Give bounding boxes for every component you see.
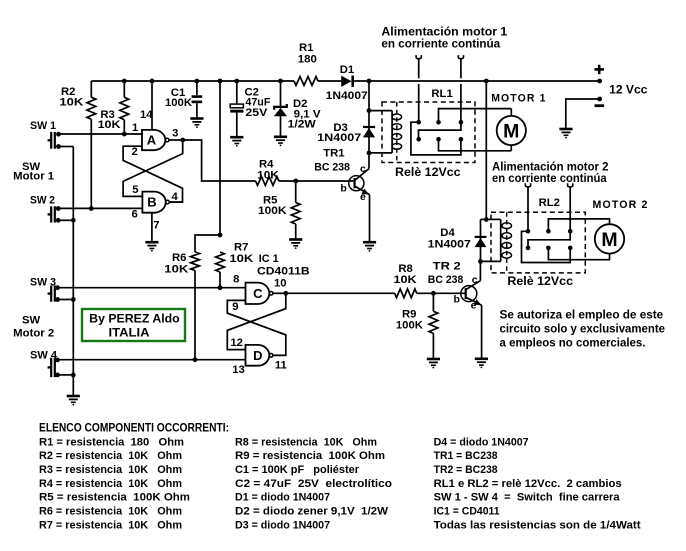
resistor R2 [59, 81, 95, 211]
label: MOTOR 2 [593, 199, 649, 211]
wire: pin 10 to R8 [286, 292, 395, 294]
svg-text:BC 238: BC 238 [428, 274, 464, 286]
resistor R3 [98, 79, 129, 137]
svg-text:RL1: RL1 [431, 88, 452, 100]
svg-text:R1: R1 [299, 42, 313, 54]
ground (pin 7) [145, 242, 158, 252]
svg-text:1N4007: 1N4007 [326, 90, 368, 102]
svg-text:R4 = resistencia 10K Ohm: R4 = resistencia 10K Ohm [39, 478, 182, 490]
svg-text:10K: 10K [394, 274, 418, 286]
svg-text:A: A [147, 132, 157, 147]
svg-text:SW 2: SW 2 [30, 195, 55, 207]
svg-text:100K: 100K [258, 205, 287, 217]
svg-text:1N4007: 1N4007 [428, 239, 471, 251]
wire: SW4 lower contact to common [58, 374, 74, 376]
pin label 2 [132, 146, 138, 158]
svg-text:en corriente continúa: en corriente continúa [381, 37, 500, 50]
resistor R9 [396, 293, 438, 358]
svg-text:11: 11 [275, 359, 287, 371]
svg-text:circuito solo y exclusivamente: circuito solo y exclusivamente [500, 322, 666, 336]
svg-text:R6: R6 [172, 252, 186, 264]
svg-text:SW 1 - SW 4 = Switch fine c: SW 1 - SW 4 = Switch fine carrera [434, 492, 621, 504]
svg-text:D4 = diodo 1N4007: D4 = diodo 1N4007 [434, 436, 529, 448]
wire: TR1 emitter to ground [369, 195, 371, 242]
svg-text:10K: 10K [164, 264, 189, 276]
svg-text:BC 238: BC 238 [314, 162, 350, 174]
label: SW Motor 2 [13, 314, 54, 339]
capacitor C2 electrolytic [230, 79, 270, 137]
motor M1 [497, 109, 526, 151]
NAND gate B (IC1b) [142, 192, 182, 213]
NAND gate C (IC1c) [246, 283, 289, 304]
svg-text:IC1 = CD4011: IC1 = CD4011 [434, 506, 500, 518]
svg-text:R5 = resistencia 100K Ohm: R5 = resistencia 100K Ohm [39, 492, 190, 504]
svg-text:9: 9 [232, 301, 238, 313]
resistor R4 [256, 159, 296, 186]
pin label 6 [132, 209, 138, 221]
svg-text:10K: 10K [229, 253, 254, 265]
svg-text:b: b [340, 182, 346, 194]
label: IC 1 CD4011B [257, 253, 310, 278]
ground (D2) [274, 137, 287, 147]
relay RL1 [369, 88, 511, 163]
resistor R5 [258, 181, 300, 239]
resistor R7 [216, 242, 255, 291]
zener diode D2 [274, 79, 321, 136]
wire: gate B pin 7 to ground [151, 213, 153, 242]
wire: rail to relay RL2 feed [484, 79, 489, 220]
svg-text:R2 = resistencia 10K Ohm: R2 = resistencia 10K Ohm [39, 450, 182, 462]
node: TR1 base junction [293, 179, 353, 184]
svg-text:MOTOR 1: MOTOR 1 [491, 93, 546, 105]
svg-text:25V: 25V [245, 107, 267, 119]
note: author box By PEREZ Aldo ITALIA [82, 309, 185, 341]
svg-text:12 Vcc: 12 Vcc [609, 85, 648, 97]
svg-text:Relè 12Vcc: Relè 12Vcc [507, 274, 573, 288]
svg-text:RL1 e RL2 = relè 12Vcc. 2 cam: RL1 e RL2 = relè 12Vcc. 2 cambios [434, 478, 622, 490]
wire: pin 3 to pin 5 feedback [123, 140, 183, 196]
node: +12Vcc terminal [594, 65, 648, 97]
note: Alimentación motor 2 [492, 161, 609, 186]
svg-text:CD4011B: CD4011B [257, 266, 310, 278]
wire: pin 3 to R4 [183, 140, 256, 181]
pin label 7 [153, 219, 159, 231]
node: - terminal [566, 97, 604, 128]
wire: SW2 lower contact to common [58, 219, 73, 221]
pin label 8 [233, 273, 239, 285]
svg-text:1/2W: 1/2W [288, 118, 316, 130]
svg-text:5: 5 [132, 184, 138, 196]
terminal: motor 2 supply a [525, 183, 530, 231]
svg-text:Se autoriza el empleo de este: Se autoriza el empleo de este [500, 307, 664, 321]
svg-text:en corriente continúa: en corriente continúa [492, 172, 607, 185]
motor M2 [595, 224, 624, 253]
wire: +12V power rail [91, 80, 599, 82]
svg-text:R6 = resistencia 10K Ohm: R6 = resistencia 10K Ohm [39, 506, 182, 518]
svg-text:R7: R7 [234, 242, 248, 254]
svg-text:D2 = diodo zener 9,1V 1/2W: D2 = diodo zener 9,1V 1/2W [235, 506, 389, 518]
svg-text:TR2 = BC238: TR2 = BC238 [434, 464, 498, 476]
svg-text:2: 2 [132, 146, 138, 158]
svg-text:B: B [147, 195, 156, 210]
wire: SW2 to gate B pin 6 [58, 207, 142, 209]
node: TR2 base junction [431, 291, 466, 296]
svg-text:D1: D1 [340, 64, 354, 76]
svg-text:3: 3 [172, 127, 178, 139]
ground (supply) [559, 129, 572, 139]
svg-text:M: M [503, 120, 519, 142]
svg-text:TR1 = BC238: TR1 = BC238 [434, 450, 498, 462]
wire: rail down to R7 [218, 79, 223, 235]
svg-text:100K: 100K [396, 319, 424, 331]
svg-text:C1 = 100K pF poliéster: C1 = 100K pF poliéster [235, 464, 360, 476]
terminal: motor 2 supply b [568, 183, 573, 231]
svg-text:R3 = resistencia 10K Ohm: R3 = resistencia 10K Ohm [39, 464, 182, 476]
svg-text:6: 6 [132, 209, 138, 221]
svg-text:D4: D4 [440, 227, 455, 239]
svg-text:10K: 10K [98, 119, 122, 131]
wire: SW3 to gate C pin 8 [58, 285, 246, 290]
svg-text:10: 10 [274, 277, 287, 289]
svg-text:R8 = resistencia 10K Ohm: R8 = resistencia 10K Ohm [235, 436, 377, 448]
switch SW4 [30, 349, 60, 377]
pin label 4 [172, 191, 179, 203]
svg-text:ITALIA: ITALIA [109, 326, 150, 340]
diode D3 [317, 79, 375, 169]
svg-text:SW 4: SW 4 [30, 349, 58, 361]
svg-text:C: C [253, 286, 263, 301]
pin label 5 [132, 184, 138, 196]
svg-text:e: e [471, 300, 477, 312]
svg-text:D1 = diodo 1N4007: D1 = diodo 1N4007 [235, 492, 330, 504]
wire: switch common to ground [71, 147, 76, 396]
resistor R6 [164, 233, 222, 363]
label: SW Motor 1 [13, 161, 54, 183]
wire: SW4 to gate D pin 13 [58, 359, 246, 361]
svg-text:13: 13 [232, 364, 245, 376]
pin label 10 [274, 277, 287, 289]
pin label 14 [140, 109, 153, 121]
NAND gate D (IC1d) [246, 345, 286, 366]
note: Alimentación motor 1 [381, 25, 507, 50]
svg-text:14: 14 [140, 109, 153, 121]
label: MOTOR 1 [491, 93, 546, 105]
svg-text:R9 = resistencia 100K Ohm: R9 = resistencia 100K Ohm [235, 450, 385, 462]
diode D4 [428, 217, 501, 264]
pin label 12 [230, 337, 243, 349]
svg-text:R7 = resistencia 10K Ohm: R7 = resistencia 10K Ohm [39, 519, 182, 531]
note: component list [39, 423, 641, 532]
svg-text:1: 1 [132, 122, 138, 134]
relay RL2 [486, 197, 609, 273]
svg-text:MOTOR 2: MOTOR 2 [593, 199, 649, 211]
svg-text:10K: 10K [59, 97, 84, 109]
terminal: motor 1 supply b [458, 55, 463, 122]
switch SW2 [30, 195, 61, 223]
transistor TR2 BC238 [428, 261, 482, 312]
ground (C1) [190, 119, 203, 129]
svg-text:SW: SW [22, 314, 41, 326]
svg-text:RL2: RL2 [539, 197, 560, 209]
capacitor C1 [165, 79, 202, 119]
ground (R9) [427, 359, 440, 369]
pin label 9 [232, 301, 238, 313]
wire: SW1 lower contact to common [59, 146, 74, 148]
ground (R5) [289, 240, 302, 250]
svg-text:e: e [360, 191, 366, 203]
svg-text:Todas las resistencias son de: Todas las resistencias son de 1/4Watt [434, 519, 641, 531]
wire: SW1 to gate A pin 1 [59, 133, 143, 135]
resistor R1 [294, 42, 318, 85]
svg-text:IC 1: IC 1 [259, 253, 279, 265]
pin label 11 [275, 359, 287, 371]
svg-text:c: c [360, 163, 366, 175]
pin label 3 [172, 127, 178, 139]
svg-text:10K: 10K [257, 169, 279, 181]
svg-text:8: 8 [233, 273, 239, 285]
pin label 1 [132, 122, 138, 134]
svg-text:180: 180 [298, 54, 317, 66]
terminal: motor 1 supply a [416, 55, 421, 122]
svg-text:a empleos no comerciales.: a empleos no comerciales. [500, 335, 646, 349]
svg-text:SW 1: SW 1 [30, 120, 56, 132]
switch SW1 [30, 120, 61, 149]
svg-text:By PEREZ Aldo: By PEREZ Aldo [89, 311, 180, 325]
ground (C2) [230, 137, 243, 147]
diode D1 [326, 64, 368, 102]
svg-text:TR1: TR1 [323, 148, 344, 160]
svg-text:D: D [253, 348, 262, 363]
svg-text:Motor 2: Motor 2 [13, 327, 54, 339]
svg-text:12: 12 [230, 337, 243, 349]
svg-text:SW 3: SW 3 [30, 277, 56, 289]
svg-text:c: c [472, 274, 478, 286]
svg-text:D3 = diodo 1N4007: D3 = diodo 1N4007 [235, 519, 330, 531]
svg-text:Relè 12Vcc: Relè 12Vcc [395, 165, 461, 179]
note: se autoriza [500, 307, 666, 349]
svg-text:100K: 100K [165, 97, 193, 109]
transistor TR1 BC238 [314, 148, 369, 203]
ground (switch common) [67, 396, 80, 406]
ground (TR2) [475, 359, 488, 369]
wire: pin 10 to pin 12 feedback [227, 293, 285, 349]
label: Relè 12Vcc (RL2) [507, 274, 573, 288]
ground (TR1) [363, 242, 376, 252]
svg-text:R1 = resistencia 180 Ohm: R1 = resistencia 180 Ohm [39, 436, 184, 448]
wire: SW3 lower contact to common [58, 299, 74, 301]
wire: TR2 emitter to ground [481, 305, 483, 358]
svg-text:M: M [601, 229, 617, 251]
wire: rail to gate A pin 14 [150, 79, 155, 130]
resistor R8 [394, 263, 434, 298]
svg-text:ELENCO COMPONENTI OCCORRENTI:: ELENCO COMPONENTI OCCORRENTI: [39, 423, 229, 435]
svg-text:C2 = 47uF 25V electrolítico: C2 = 47uF 25V electrolítico [235, 478, 392, 490]
pin label 13 [232, 364, 245, 376]
NAND gate A (IC1a) [142, 130, 185, 150]
svg-text:7: 7 [153, 219, 159, 231]
wire: pin 4 to pin 2 feedback [123, 146, 182, 202]
svg-text:Motor 1: Motor 1 [13, 171, 54, 183]
switch SW3 [30, 277, 60, 302]
label: Relè 12Vcc (RL1) [395, 165, 461, 179]
svg-text:TR 2: TR 2 [433, 261, 461, 273]
svg-text:b: b [454, 294, 460, 306]
svg-text:1N4007: 1N4007 [317, 132, 361, 144]
wire: pin 11 to pin 9 feedback [227, 300, 285, 355]
